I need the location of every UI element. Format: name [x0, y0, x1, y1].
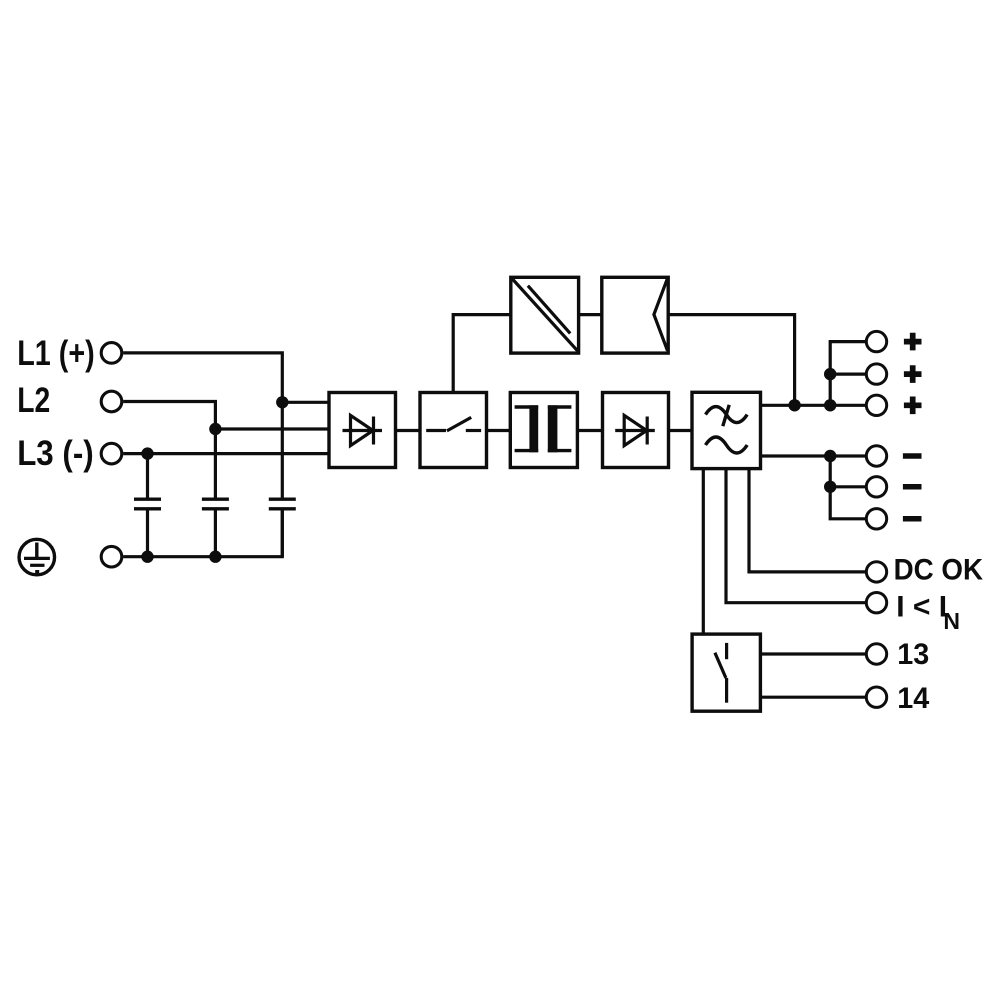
terminal +1: [866, 331, 886, 351]
node F (feedback junction): [788, 399, 800, 411]
svg-text:14: 14: [897, 682, 929, 715]
wire C1 to PE bus: [146, 511, 149, 557]
capacitor C3: [269, 499, 296, 509]
label + (output 3): [904, 397, 922, 415]
wire U3 to node F: [668, 315, 794, 406]
output filter U4 box: [692, 392, 761, 468]
node B (L2 junction): [209, 423, 221, 435]
U3 chevron symbol: [654, 279, 668, 351]
wire + branch riser: [830, 342, 866, 406]
wire node C to capacitor C1: [146, 454, 149, 498]
wire T1 to diode D2: [577, 429, 602, 432]
wire U4 to + bus: [761, 404, 867, 407]
wire node A to rectifier input 1: [282, 401, 329, 404]
wire C2 to PE bus: [214, 511, 217, 557]
diode D1 symbol: [343, 415, 383, 445]
wire U1 to S1: [396, 429, 421, 432]
svg-text:L3 (-): L3 (-): [17, 434, 94, 473]
ground (PE symbol): [19, 539, 55, 575]
terminal L1: [101, 343, 122, 364]
svg-text:L2: L2: [17, 381, 50, 420]
terminal −3: [866, 509, 886, 529]
node C (L3 junction): [141, 447, 153, 459]
node H (+2 junction): [824, 368, 836, 380]
label + (output 1): [904, 333, 922, 351]
wire D2 to output filter U4: [669, 429, 693, 432]
wire K1 to terminal 13: [760, 652, 866, 655]
svg-text:N: N: [943, 608, 960, 634]
svg-text:L1 (+): L1 (+): [17, 334, 95, 373]
node D (C1 on PE bus): [141, 551, 153, 563]
wire U2 to feedback U3: [579, 313, 602, 316]
terminal +2: [866, 364, 886, 384]
terminal 13: [866, 644, 886, 664]
diode D2 symbol: [615, 415, 655, 445]
label − (output 1): [903, 453, 922, 459]
switch S1 box: [420, 393, 487, 468]
U2 diagonal symbol: [512, 279, 578, 351]
svg-text:I < I: I < I: [896, 591, 947, 624]
wire S1 top to DC/DC converter U2: [453, 315, 511, 393]
rectifier U1 box: [329, 393, 396, 468]
wire node H to terminal +2: [830, 373, 866, 376]
capacitor C1: [134, 499, 161, 509]
wire node A to capacitor C3: [281, 402, 284, 497]
transformer T1 box: [510, 393, 577, 468]
node I (− branch junction): [824, 450, 836, 462]
label − (output 2): [903, 484, 922, 490]
wire S1 to transformer T1: [487, 429, 511, 432]
capacitor C2: [202, 499, 229, 509]
terminal −1: [866, 446, 886, 466]
wire node B to capacitor C2: [214, 429, 217, 498]
wire U4 to I&lt;IN terminal: [726, 469, 866, 603]
label − (output 3): [903, 516, 922, 522]
feedback U3 box: [602, 277, 668, 353]
wire K1 to terminal 14: [760, 696, 866, 699]
label + (output 2): [904, 365, 922, 383]
wire C3 to PE bus: [281, 511, 284, 557]
wire L2 to node B: [123, 402, 215, 430]
node J (−2 junction): [824, 481, 836, 493]
node G (+ branch junction): [824, 399, 836, 411]
wire U4 to relay K1: [702, 469, 705, 635]
terminal +3: [866, 395, 886, 415]
U4 filter symbol (crossed sine over sine): [706, 405, 748, 453]
DC/DC converter U2 box: [511, 277, 579, 353]
wire U4 to − bus: [761, 454, 867, 457]
relay K1 box: [692, 634, 760, 711]
terminal 14: [866, 687, 886, 707]
wire L1 to node A: [123, 353, 282, 402]
terminal I&lt;IN: [866, 593, 886, 613]
terminal −2: [866, 477, 886, 497]
terminal DC OK: [866, 562, 886, 582]
terminal PE: [101, 546, 122, 567]
terminal L3: [101, 443, 122, 464]
terminal L2: [101, 391, 122, 412]
svg-text:13: 13: [897, 638, 929, 671]
svg-text:DC OK: DC OK: [894, 553, 984, 586]
node A (L1 junction): [276, 396, 288, 408]
node E (C2 on PE bus): [209, 551, 221, 563]
switch S1 contact symbol: [426, 417, 481, 431]
wire U4 to DC OK terminal: [749, 469, 866, 572]
relay K1 contact symbol: [715, 643, 727, 703]
wire L3 to rectifier input 3: [123, 452, 329, 455]
wire node B to rectifier input 2: [215, 427, 329, 430]
wire − branch dropper: [830, 456, 866, 519]
PE bus wire: [123, 511, 282, 557]
wire node J to terminal −2: [830, 485, 866, 488]
transformer T1 windings: [515, 405, 572, 452]
diode D2 box: [603, 393, 669, 468]
